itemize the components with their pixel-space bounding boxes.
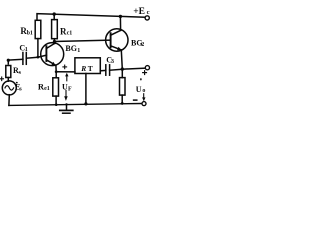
wire emitter tap to RT box [56, 71, 75, 73]
wire Rb1 to base node [37, 39, 39, 58]
resistor Rs [7, 60, 9, 64]
svg-text:U: U [136, 85, 142, 94]
ground [66, 104, 68, 109]
node source top [7, 59, 10, 62]
svg-text:1: 1 [25, 47, 28, 53]
wire bottom ground rail [9, 104, 142, 106]
wire RT box to C3 [100, 69, 106, 71]
wire BG2 collector up [119, 16, 121, 30]
wire BG1 emitter down [55, 66, 57, 78]
transistor BG2 [106, 29, 128, 51]
resistor Rc1 [53, 14, 55, 20]
wire BG2 emitter down [121, 50, 122, 69]
source Es [2, 81, 16, 95]
capacitor C3 [105, 65, 107, 75]
wire C1 to base BG1 [26, 55, 46, 58]
node collector BG1 / base BG2 [53, 40, 56, 43]
arrow UF down [65, 90, 67, 96]
wire Rc1 to collector node [53, 39, 55, 42]
svg-text:2: 2 [141, 42, 144, 48]
wire C3 to output node [110, 68, 146, 70]
svg-text:c1: c1 [67, 30, 73, 36]
node base BG1 [37, 56, 40, 59]
node output [121, 67, 124, 70]
wire top supply rail [37, 14, 145, 21]
terminal output - [142, 102, 146, 106]
plus UF [63, 65, 67, 69]
minus output [134, 99, 137, 101]
node emitter tap [55, 70, 58, 73]
svg-text:+E: +E [133, 7, 145, 17]
node top of Rc1 [53, 12, 56, 15]
resistor Re1 [53, 78, 59, 96]
svg-text:b1: b1 [27, 31, 33, 37]
node Re1 bottom [55, 103, 58, 106]
svg-text:3: 3 [111, 59, 114, 65]
wire RT box to ground rail [85, 74, 87, 104]
svg-text:s: s [19, 70, 22, 76]
resistor Rb1 [35, 20, 41, 38]
svg-text:R: R [80, 64, 86, 73]
svg-text:s: s [19, 87, 22, 93]
arrow UF up [66, 76, 68, 81]
resistor Re2 [121, 69, 123, 78]
plus output [143, 71, 147, 75]
wire source to ground rail [8, 95, 10, 106]
svg-text:c: c [147, 9, 150, 16]
svg-text:o: o [142, 88, 145, 94]
svg-text:1: 1 [77, 48, 80, 54]
capacitor C1 [22, 53, 24, 65]
wire collector BG1 to base BG2 [54, 40, 110, 41]
svg-text:BG: BG [65, 44, 77, 53]
svg-text:F: F [68, 87, 72, 93]
svg-text:e1: e1 [44, 86, 50, 92]
arrow Uo down [143, 94, 145, 98]
plus source [0, 77, 4, 81]
transistor BG1 [41, 43, 64, 66]
terminal +Ec [145, 16, 149, 20]
wire source to C1 [8, 58, 23, 61]
node top of BG2 collector [119, 15, 122, 18]
feedback network RT [75, 58, 100, 74]
terminal output + [145, 66, 149, 70]
svg-text:T: T [88, 64, 93, 73]
